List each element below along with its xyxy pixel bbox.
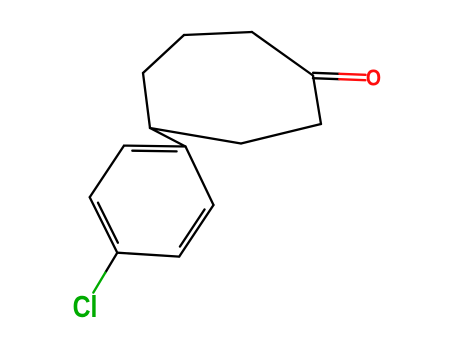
wire: benzene bond C2'-C3' [179, 205, 213, 257]
svg-text:Cl: Cl [73, 289, 98, 323]
wire: C4'-Cl bond, chlorine half (green) [93, 273, 105, 293]
svg-text:O: O [366, 65, 381, 91]
wire: benzene bond C4'-C5' [90, 197, 118, 253]
wire: cycloheptanone ring bond C3-C4 [150, 128, 241, 144]
wire: aromatic inner double-bond line (B4-B5) [180, 209, 205, 246]
wire: cycloheptanone ring bond C6-C7 [184, 32, 252, 35]
wire: C=O double bond upper line, carbon half (black) [313, 78, 339, 79]
wire: C=O double bond upper line, oxygen half (red) [339, 79, 365, 80]
wire: cycloheptanone ring bond C7-C1 carbonyl [252, 32, 313, 76]
wire: cycloheptanone ring bond C5-C6 [143, 35, 184, 73]
wire: cycloheptanone ring bond C4-C5 [143, 73, 150, 128]
wire: cycloheptanone ring bond C2-C3 [241, 124, 321, 144]
wire: aromatic inner double-bond line (B0-B1) [98, 203, 118, 243]
wire: benzene bond C6'-C1' [124, 144, 186, 147]
wire: bond ring C4 to phenyl C1' [150, 128, 186, 147]
wire: cycloheptanone ring bond C1 carbonyl-C2 [313, 76, 321, 125]
wire: benzene bond C3'-C4' [117, 253, 179, 257]
wire: aromatic inner double-bond line (B2-B3) [132, 150, 176, 153]
wire: benzene bond C5'-C6' [90, 146, 124, 198]
wire: C=O double bond lower line, oxygen half (red) [339, 74, 365, 75]
wire: C4'-Cl bond, carbon half (black) [105, 253, 117, 273]
wire: benzene bond C1'-C2' [186, 147, 214, 206]
wire: C=O double bond lower line, carbon half (black) [313, 73, 339, 74]
